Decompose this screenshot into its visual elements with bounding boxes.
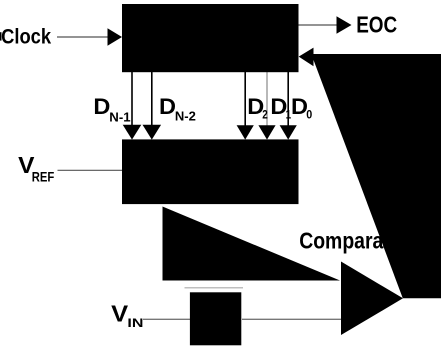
svg-text:0: 0 bbox=[306, 107, 312, 121]
svg-text:EOC: EOC bbox=[356, 11, 397, 37]
svg-text:Clock: Clock bbox=[1, 26, 51, 49]
svg-text:N-1: N-1 bbox=[109, 110, 130, 125]
svg-text:N-2: N-2 bbox=[175, 108, 196, 123]
svg-text:REF: REF bbox=[32, 169, 55, 185]
svg-text:D: D bbox=[159, 94, 176, 119]
svg-text:IN: IN bbox=[127, 316, 143, 330]
svg-text:D: D bbox=[93, 94, 110, 119]
svg-text:V: V bbox=[111, 300, 129, 326]
svg-text:2: 2 bbox=[262, 107, 268, 121]
